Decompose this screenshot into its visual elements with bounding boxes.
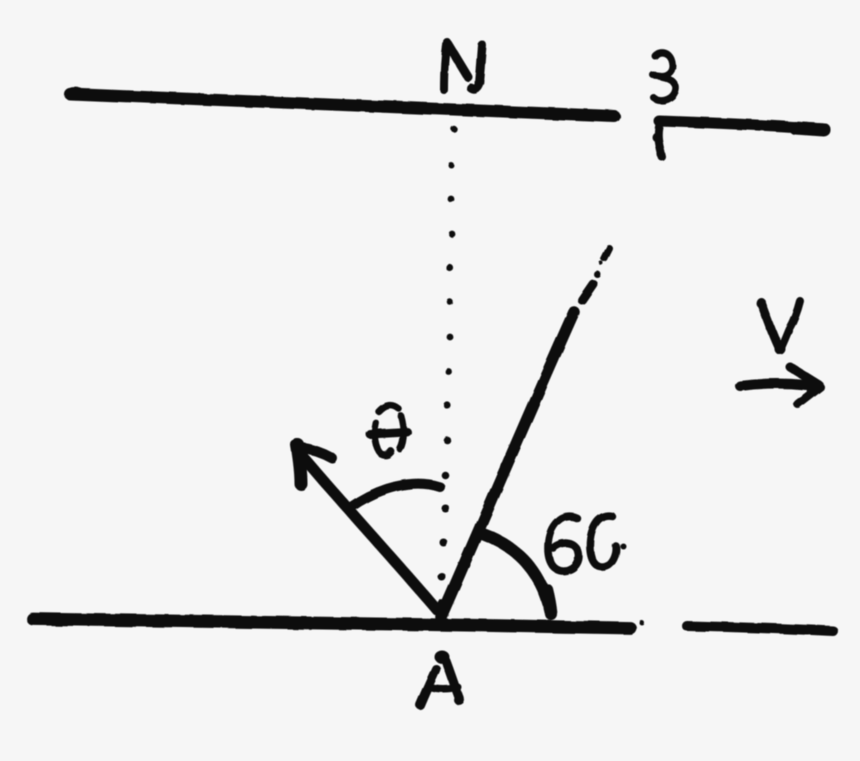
velocity arrow V (rightward) [740,367,822,404]
label V (velocity of wall) [756,298,800,355]
dotted normal line from N down to A [438,126,458,607]
slanted line at 60 degrees from A [441,248,609,617]
ground line small dot [640,621,645,626]
top wall line left segment [70,91,614,116]
angle arc theta [351,484,440,507]
label B (drawn like 3) [653,53,676,101]
velocity arrow of particle (up-left from A) [292,439,438,611]
label 60 [548,516,626,571]
ground line left segment [33,619,630,628]
top wall line right segment [659,121,825,130]
tick mark below right segment [652,123,662,157]
label theta [370,406,407,455]
angle arc 60 [483,534,551,614]
label N [444,42,482,90]
ground line right segment [687,626,833,631]
label A (point A) [420,651,464,706]
